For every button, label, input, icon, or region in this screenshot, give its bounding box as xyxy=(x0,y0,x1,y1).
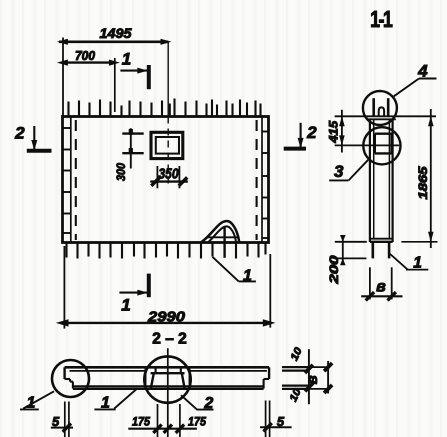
svg-text:175: 175 xyxy=(132,415,150,429)
svg-text:200: 200 xyxy=(329,255,341,285)
svg-text:2: 2 xyxy=(306,123,317,142)
svg-text:5: 5 xyxy=(52,414,60,429)
svg-text:1-1: 1-1 xyxy=(370,7,392,33)
svg-text:700: 700 xyxy=(75,49,95,63)
svg-text:5: 5 xyxy=(277,414,285,429)
svg-text:в: в xyxy=(376,279,386,296)
svg-text:1: 1 xyxy=(101,395,110,412)
svg-text:3: 3 xyxy=(334,162,344,181)
svg-text:1865: 1865 xyxy=(418,166,430,200)
svg-text:415: 415 xyxy=(329,120,341,144)
svg-text:2 – 2: 2 – 2 xyxy=(152,331,186,348)
svg-text:300: 300 xyxy=(116,162,128,181)
svg-text:10: 10 xyxy=(288,346,304,363)
svg-text:350: 350 xyxy=(159,167,179,183)
svg-text:1: 1 xyxy=(122,50,131,69)
svg-text:2: 2 xyxy=(203,395,213,412)
svg-text:175: 175 xyxy=(188,415,206,429)
svg-text:в: в xyxy=(304,375,321,384)
svg-text:2: 2 xyxy=(14,124,25,143)
svg-text:1: 1 xyxy=(413,254,422,271)
svg-text:1: 1 xyxy=(121,296,130,315)
svg-text:2990: 2990 xyxy=(147,308,186,325)
svg-text:1: 1 xyxy=(243,268,252,285)
svg-text:1: 1 xyxy=(27,395,36,412)
svg-text:1495: 1495 xyxy=(100,25,132,41)
